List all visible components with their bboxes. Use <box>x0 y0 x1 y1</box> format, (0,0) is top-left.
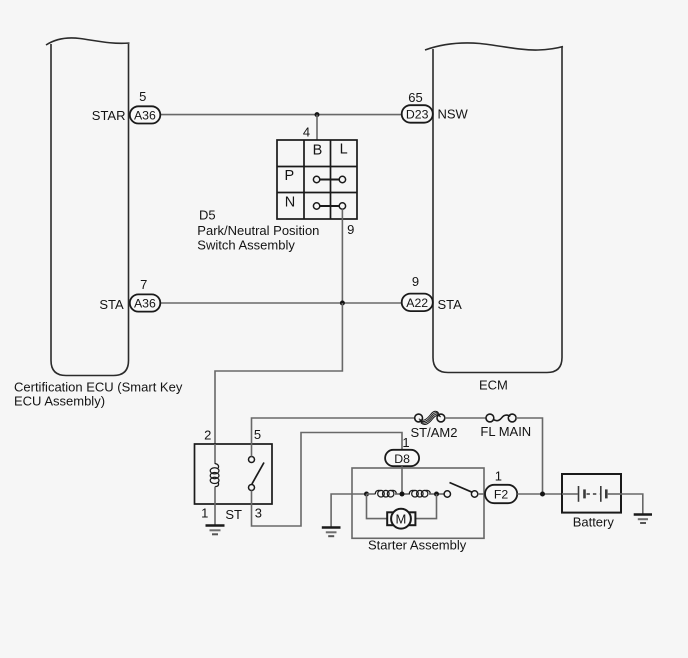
starter switch blade <box>450 483 473 493</box>
motor M <box>387 509 415 529</box>
svg-text:A36: A36 <box>134 296 156 310</box>
connector D8 pin 1 <box>385 450 419 466</box>
relay switch blade <box>252 463 264 485</box>
node junction battery feed <box>540 492 545 497</box>
connector D23 pin 65 (NSW) <box>402 105 433 123</box>
svg-text:ST: ST <box>225 507 242 522</box>
svg-text:ECM: ECM <box>479 377 508 392</box>
starter pull-in coil <box>409 490 430 497</box>
svg-text:5: 5 <box>139 89 146 104</box>
svg-text:L: L <box>340 142 348 158</box>
svg-text:1: 1 <box>201 505 208 520</box>
ground right of battery <box>634 515 652 524</box>
battery cells <box>562 486 621 502</box>
wire battery to ground <box>621 494 643 515</box>
svg-text:Battery: Battery <box>573 515 615 530</box>
svg-text:9: 9 <box>412 274 419 289</box>
starter hold-in coil <box>375 490 396 497</box>
svg-text:M: M <box>395 511 406 526</box>
svg-text:3: 3 <box>255 506 262 521</box>
wire ground to starter coils <box>331 494 366 528</box>
svg-text:ST/AM2: ST/AM2 <box>411 425 458 440</box>
svg-text:9: 9 <box>347 222 354 237</box>
wire F2 to battery <box>517 493 562 495</box>
relay ST box <box>195 444 273 504</box>
svg-text:7: 7 <box>140 277 147 292</box>
svg-text:D5: D5 <box>199 208 216 223</box>
park/neutral position switch D5 grid <box>277 140 357 219</box>
svg-text:A36: A36 <box>134 108 156 122</box>
wire relay coil to ground pin 1 <box>214 487 216 526</box>
svg-text:Switch Assembly: Switch Assembly <box>197 237 295 252</box>
wire relay pin5 up and right to ST/AM2 fuse <box>252 418 415 457</box>
svg-text:1: 1 <box>402 435 409 450</box>
wire STA: A36 pin7 to A22 pin9 <box>159 302 403 304</box>
motor loop wires <box>367 494 388 519</box>
ground under relay <box>206 526 225 535</box>
starter switch left contact <box>444 491 450 497</box>
switch contacts row P <box>313 176 345 182</box>
wire between coils <box>395 493 410 495</box>
starter assembly box <box>352 468 484 538</box>
node junction under D8 <box>400 492 405 497</box>
svg-text:1: 1 <box>495 468 502 483</box>
wire relay pin3 down right up to D8 <box>252 433 403 527</box>
starter switch right contact <box>471 491 477 497</box>
node junction on STAR wire <box>315 112 320 117</box>
wire FL MAIN right and down to battery junction <box>516 418 542 494</box>
node junction coil left <box>364 492 369 497</box>
relay switch fixed contact <box>249 457 255 463</box>
wire D8 down into starter <box>401 466 403 494</box>
wire ST/AM2 to FL MAIN <box>445 417 486 419</box>
svg-text:N: N <box>285 195 295 211</box>
connector A36 pin 7 (STA) <box>130 294 161 311</box>
wire to coil 1 <box>367 493 376 495</box>
Certification ECU (Smart Key ECU Assembly) box U-left <box>46 38 130 376</box>
fuse FL MAIN <box>486 414 516 422</box>
wire from switch grid pin 9 down to STA wire <box>341 209 343 303</box>
svg-text:NSW: NSW <box>438 107 469 122</box>
fusible link ST/AM2 <box>415 411 445 424</box>
svg-text:B: B <box>313 142 323 158</box>
svg-text:Park/Neutral Position: Park/Neutral Position <box>197 223 319 238</box>
svg-text:5: 5 <box>254 427 261 442</box>
svg-text:D23: D23 <box>406 107 429 121</box>
svg-text:D8: D8 <box>394 452 410 466</box>
connector A22 pin 9 (STA) <box>402 294 433 312</box>
svg-text:2: 2 <box>204 428 211 443</box>
svg-text:4: 4 <box>303 125 310 140</box>
wire from STA node down-left to ST relay pin 2 <box>215 303 342 444</box>
svg-text:Starter Assembly: Starter Assembly <box>368 537 467 552</box>
wire coil2 to switch contact <box>429 493 444 495</box>
switch contacts row N <box>313 203 345 209</box>
relay switch moving contact <box>249 485 255 491</box>
wire from node down to switch grid pin 4 <box>316 115 318 140</box>
svg-text:FL MAIN: FL MAIN <box>480 424 531 439</box>
svg-text:Certification ECU (Smart Key: Certification ECU (Smart Key <box>14 380 183 395</box>
ground left of starter <box>322 528 341 537</box>
wire relay pin2 to coil <box>214 444 216 464</box>
relay coil <box>210 464 219 487</box>
wire switch to F2 <box>478 493 485 495</box>
wire STAR: A36 pin5 to D23 pin65 <box>159 114 403 116</box>
svg-text:P: P <box>284 168 294 184</box>
svg-text:F2: F2 <box>494 488 509 502</box>
svg-text:ECU Assembly): ECU Assembly) <box>14 394 105 409</box>
svg-text:A22: A22 <box>406 296 428 310</box>
node junction on STA wire <box>340 301 345 306</box>
connector F2 pin 1 <box>485 485 517 503</box>
svg-text:STAR: STAR <box>92 108 126 123</box>
node junction coil right <box>434 492 439 497</box>
connector A36 pin 5 (STAR) <box>130 106 161 123</box>
ECM box U-right <box>425 43 563 373</box>
battery box <box>562 474 621 513</box>
svg-text:65: 65 <box>408 90 422 105</box>
svg-text:STA: STA <box>438 297 463 312</box>
svg-text:STA: STA <box>99 297 124 312</box>
